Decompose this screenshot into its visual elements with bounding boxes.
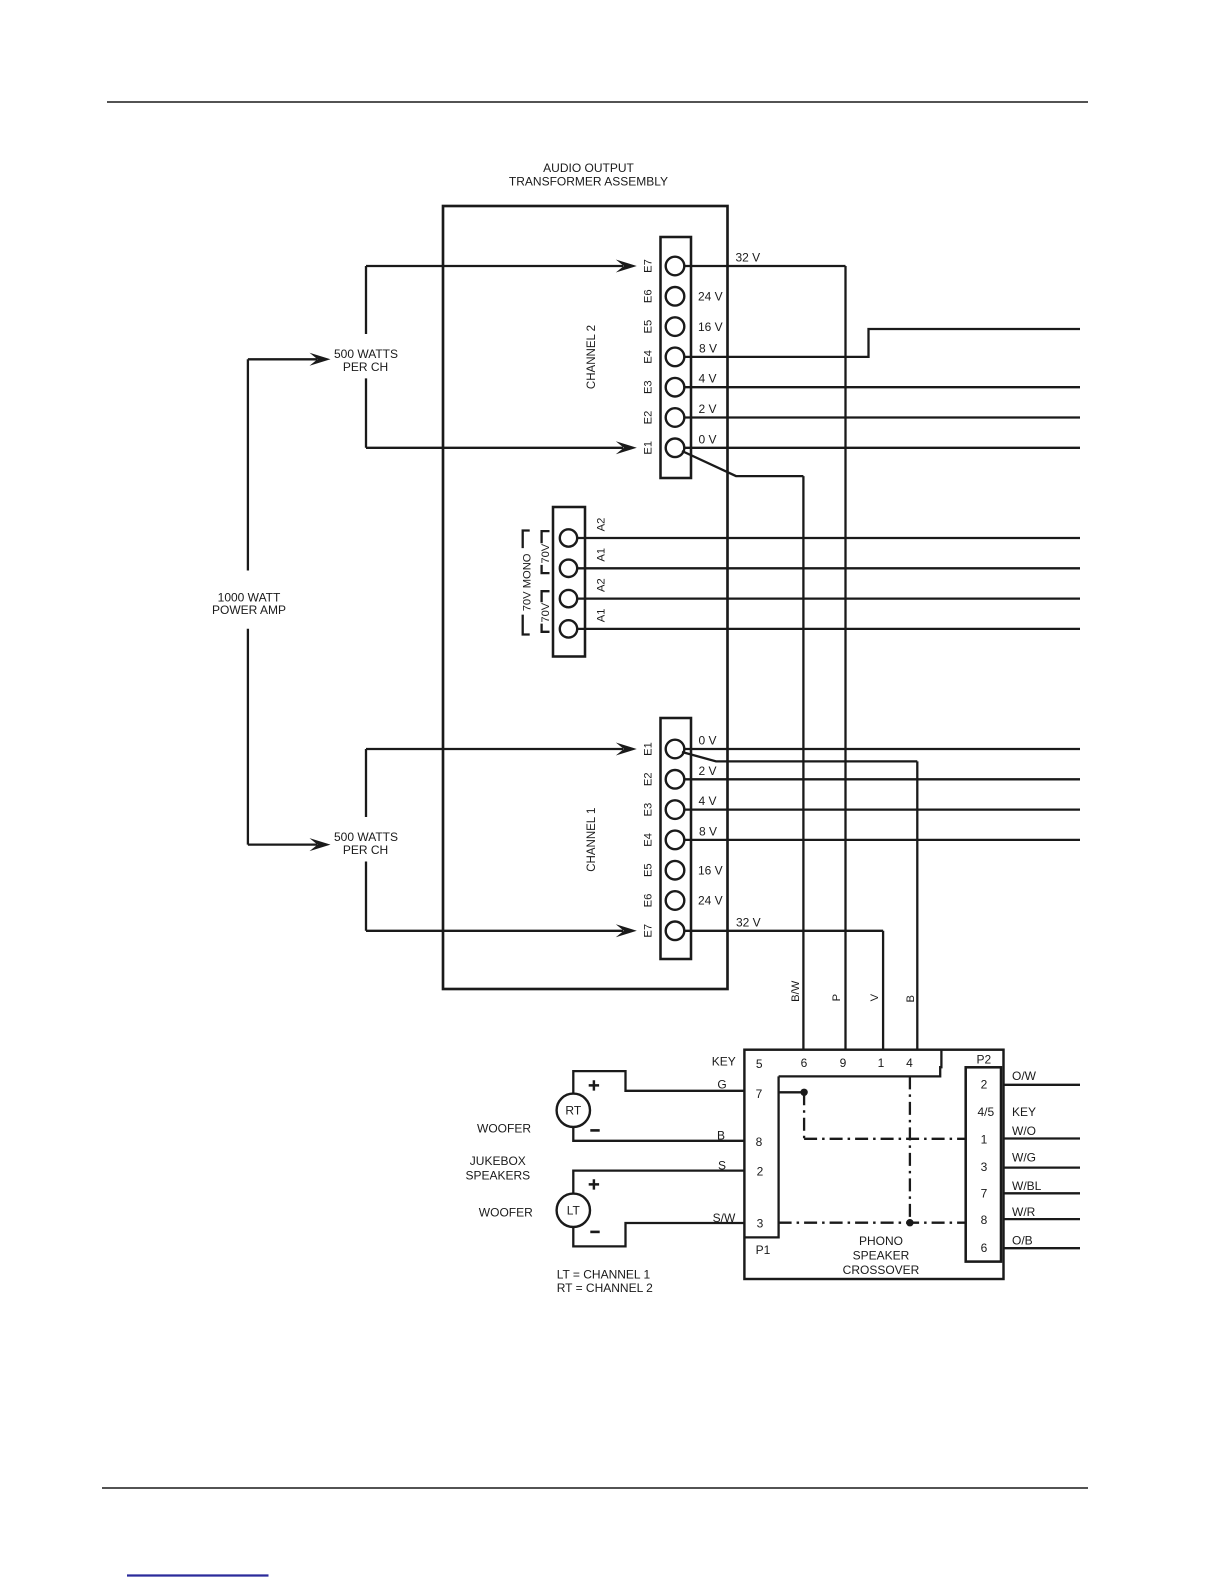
- svg-text:16 V: 16 V: [698, 320, 723, 334]
- svg-text:KEY: KEY: [712, 1054, 736, 1068]
- svg-text:WOOFER: WOOFER: [479, 1206, 533, 1220]
- svg-text:6: 6: [981, 1241, 988, 1255]
- svg-text:S: S: [718, 1158, 726, 1172]
- svg-text:POWER AMP: POWER AMP: [212, 603, 286, 617]
- svg-text:E6: E6: [642, 289, 654, 303]
- svg-text:PER CH: PER CH: [343, 360, 388, 374]
- svg-text:6: 6: [801, 1056, 808, 1070]
- svg-text:2 V: 2 V: [699, 402, 717, 416]
- svg-text:PER CH: PER CH: [343, 843, 388, 857]
- svg-text:A1: A1: [595, 609, 607, 623]
- svg-text:W/BL: W/BL: [1012, 1179, 1042, 1193]
- svg-text:70V MONO: 70V MONO: [522, 553, 534, 611]
- svg-text:16 V: 16 V: [698, 863, 723, 877]
- svg-text:CROSSOVER: CROSSOVER: [843, 1263, 920, 1277]
- svg-text:0 V: 0 V: [699, 734, 717, 748]
- svg-text:P1: P1: [756, 1243, 771, 1257]
- svg-text:S/W: S/W: [713, 1211, 736, 1225]
- svg-text:LT: LT: [567, 1204, 581, 1218]
- svg-text:3: 3: [757, 1216, 764, 1230]
- svg-text:1: 1: [981, 1132, 988, 1146]
- svg-text:7: 7: [981, 1187, 988, 1201]
- svg-text:B: B: [905, 995, 917, 1002]
- svg-text:E1: E1: [642, 742, 654, 756]
- svg-text:A2: A2: [595, 578, 607, 592]
- svg-text:8 V: 8 V: [699, 824, 717, 838]
- svg-text:2 V: 2 V: [699, 764, 717, 778]
- svg-text:SPEAKER: SPEAKER: [853, 1248, 910, 1262]
- svg-text:2: 2: [981, 1077, 988, 1091]
- svg-text:E6: E6: [642, 894, 654, 908]
- svg-text:RT: RT: [565, 1104, 581, 1118]
- svg-text:32 V: 32 V: [736, 251, 761, 265]
- svg-text:4 V: 4 V: [699, 794, 717, 808]
- svg-text:B: B: [717, 1129, 725, 1143]
- svg-text:E7: E7: [642, 924, 654, 938]
- svg-text:500 WATTS: 500 WATTS: [334, 830, 398, 844]
- svg-text:8: 8: [756, 1135, 763, 1149]
- svg-text:A2: A2: [595, 518, 607, 532]
- svg-text:1: 1: [878, 1056, 885, 1070]
- svg-text:7: 7: [756, 1087, 763, 1101]
- svg-text:9: 9: [840, 1056, 847, 1070]
- svg-text:8 V: 8 V: [699, 341, 717, 355]
- svg-text:E4: E4: [642, 350, 654, 364]
- svg-text:E4: E4: [642, 833, 654, 847]
- svg-text:RT = CHANNEL 2: RT = CHANNEL 2: [557, 1281, 653, 1295]
- svg-text:E7: E7: [642, 259, 654, 273]
- svg-text:4/5: 4/5: [977, 1105, 994, 1119]
- svg-text:5: 5: [756, 1057, 763, 1071]
- svg-text:TRANSFORMER ASSEMBLY: TRANSFORMER ASSEMBLY: [509, 174, 668, 188]
- svg-text:P: P: [831, 994, 843, 1001]
- svg-text:24 V: 24 V: [698, 894, 723, 908]
- svg-text:KEY: KEY: [1012, 1105, 1036, 1119]
- svg-text:LT = CHANNEL 1: LT = CHANNEL 1: [557, 1268, 651, 1282]
- svg-text:W/O: W/O: [1012, 1124, 1036, 1138]
- svg-text:70V: 70V: [540, 543, 552, 563]
- svg-text:E1: E1: [642, 441, 654, 455]
- svg-text:O/B: O/B: [1012, 1234, 1033, 1248]
- svg-text:0 V: 0 V: [699, 432, 717, 446]
- svg-text:500 WATTS: 500 WATTS: [334, 347, 398, 361]
- svg-text:WOOFER: WOOFER: [477, 1122, 531, 1136]
- svg-text:JUKEBOX: JUKEBOX: [470, 1154, 526, 1168]
- svg-text:E5: E5: [642, 863, 654, 877]
- svg-text:3: 3: [981, 1160, 988, 1174]
- svg-text:CHANNEL 1: CHANNEL 1: [586, 808, 598, 872]
- svg-text:CHANNEL 2: CHANNEL 2: [586, 325, 598, 389]
- svg-text:PHONO: PHONO: [859, 1234, 903, 1248]
- svg-text:E5: E5: [642, 320, 654, 334]
- svg-text:B/W: B/W: [790, 980, 802, 1002]
- svg-text:2: 2: [757, 1165, 764, 1179]
- svg-text:W/R: W/R: [1012, 1205, 1036, 1219]
- svg-text:G: G: [717, 1077, 726, 1091]
- svg-text:E3: E3: [642, 380, 654, 394]
- svg-text:E3: E3: [642, 803, 654, 817]
- svg-text:8: 8: [981, 1213, 988, 1227]
- svg-text:P2: P2: [976, 1053, 991, 1067]
- svg-text:24 V: 24 V: [698, 290, 723, 304]
- svg-text:A1: A1: [595, 548, 607, 562]
- svg-text:4: 4: [906, 1056, 913, 1070]
- svg-text:W/G: W/G: [1012, 1150, 1036, 1164]
- svg-text:E2: E2: [642, 772, 654, 786]
- svg-text:4 V: 4 V: [699, 372, 717, 386]
- svg-text:32 V: 32 V: [736, 915, 761, 929]
- svg-text:70V: 70V: [540, 602, 552, 622]
- svg-text:SPEAKERS: SPEAKERS: [465, 1169, 530, 1183]
- svg-text:V: V: [869, 993, 881, 1001]
- svg-text:E2: E2: [642, 411, 654, 425]
- svg-text:O/W: O/W: [1012, 1069, 1037, 1083]
- svg-text:AUDIO OUTPUT: AUDIO OUTPUT: [543, 161, 634, 175]
